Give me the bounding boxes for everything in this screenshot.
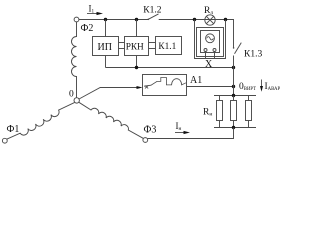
svg-text:Rн: Rн (203, 108, 212, 118)
svg-text:Rл: Rл (204, 6, 213, 16)
pin terminal right (213, 49, 216, 52)
block РКН (125, 37, 149, 56)
wire top bus left segment (79, 19, 148, 21)
node dot above ИП (104, 18, 107, 21)
node dot bottom rail (232, 126, 235, 129)
wire link РКН-К1.1 lower (149, 48, 156, 50)
svg-text:I1: I1 (89, 4, 95, 15)
svg-text:ИП: ИП (98, 42, 112, 53)
wire top bus right segment to right spine corner (159, 20, 234, 48)
pin terminal left (204, 49, 207, 52)
wire stub top of ИП (105, 20, 107, 37)
node 0 star point (74, 98, 79, 103)
connector X outer box (197, 28, 224, 57)
arrow Iавар down (261, 80, 263, 89)
winding phase 1 (to Ф1) (7, 102, 75, 139)
block ИП (93, 37, 119, 56)
switch K1.3 contact dot (233, 47, 235, 49)
resistor bank bottom rail (214, 127, 256, 129)
resistor R3 of Rн (246, 101, 252, 121)
node dot lamp left (193, 18, 196, 21)
svg-text:Iн: Iн (176, 121, 182, 132)
wire bottom bus (106, 67, 234, 69)
svg-text:X: X (205, 59, 213, 70)
wire stub top of РКН (136, 20, 138, 37)
node dot above РКН (135, 18, 138, 21)
resistor stubs bottom (220, 121, 249, 128)
wire A1 output to 0вирт node (187, 86, 234, 88)
x mark inside A1 (145, 86, 148, 89)
block К1.1 (156, 37, 182, 55)
resistor R1 of Rн (217, 101, 223, 121)
wire pin stubs (206, 52, 215, 59)
winding phase 3 (to Ф3) (79, 102, 143, 138)
winding phase 2 (vertical coil) (72, 22, 77, 98)
terminal Ф1 (2, 138, 7, 143)
resistor bank top rail (214, 95, 256, 97)
svg-text:IАВАР: IАВАР (265, 82, 281, 92)
connector X inner box (201, 31, 220, 53)
resistor stubs top (220, 96, 249, 101)
terminal Ф3 (143, 138, 148, 143)
switch K1.3 lower wire (233, 56, 235, 68)
waveform inside A1 (144, 78, 186, 87)
wire stub bottom of ИП (105, 56, 107, 68)
svg-text:Ф1: Ф1 (7, 124, 20, 135)
svg-text:К1.1: К1.1 (158, 42, 176, 52)
wire lamp parallel loop (195, 20, 226, 59)
wire bottom return to Ф3 (148, 128, 234, 139)
wire link ИП-РКН upper (119, 42, 125, 44)
node dot bus right end (232, 66, 235, 69)
svg-text:А1: А1 (190, 75, 202, 86)
svg-text:РКН: РКН (126, 43, 144, 53)
wire link ИП-РКН lower (119, 48, 125, 50)
switch K1.3 blade (235, 43, 242, 54)
node dot bus below РКН (135, 66, 138, 69)
terminal Ф2 (74, 17, 79, 22)
block A1 (surge limiter) (143, 75, 187, 96)
svg-text:К1.2: К1.2 (143, 5, 161, 15)
arrow Iн (175, 132, 187, 134)
wire star point to A1 with arrow (79, 88, 139, 100)
node dot 0вирт (232, 85, 235, 88)
AC source symbol (206, 34, 215, 43)
node dot lamp right (224, 18, 227, 21)
svg-text:Ф3: Ф3 (144, 125, 157, 136)
wire link РКН-К1.1 upper (149, 42, 156, 44)
lamp Rл (205, 15, 215, 25)
node dot top rail (232, 94, 235, 97)
svg-text:К1.3: К1.3 (244, 50, 262, 60)
svg-text:0ВИРТ: 0ВИРТ (239, 82, 256, 92)
wire right spine (233, 68, 235, 96)
switch K1.2 contact dot (148, 19, 150, 21)
arrow I1 (87, 13, 100, 15)
svg-text:Ф2: Ф2 (81, 23, 94, 34)
resistor R2 of Rн (231, 101, 237, 121)
svg-text:0: 0 (69, 90, 74, 100)
wire stub bottom of РКН (136, 56, 138, 68)
switch K1.2 blade (149, 14, 159, 19)
